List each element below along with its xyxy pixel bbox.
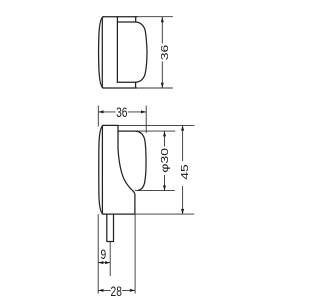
svg-text:28: 28 xyxy=(111,283,123,299)
svg-text:36: 36 xyxy=(116,104,128,120)
svg-text:9: 9 xyxy=(101,247,107,263)
svg-text:36: 36 xyxy=(159,45,171,61)
svg-text:φ30: φ30 xyxy=(159,148,171,173)
svg-text:45: 45 xyxy=(179,164,191,180)
